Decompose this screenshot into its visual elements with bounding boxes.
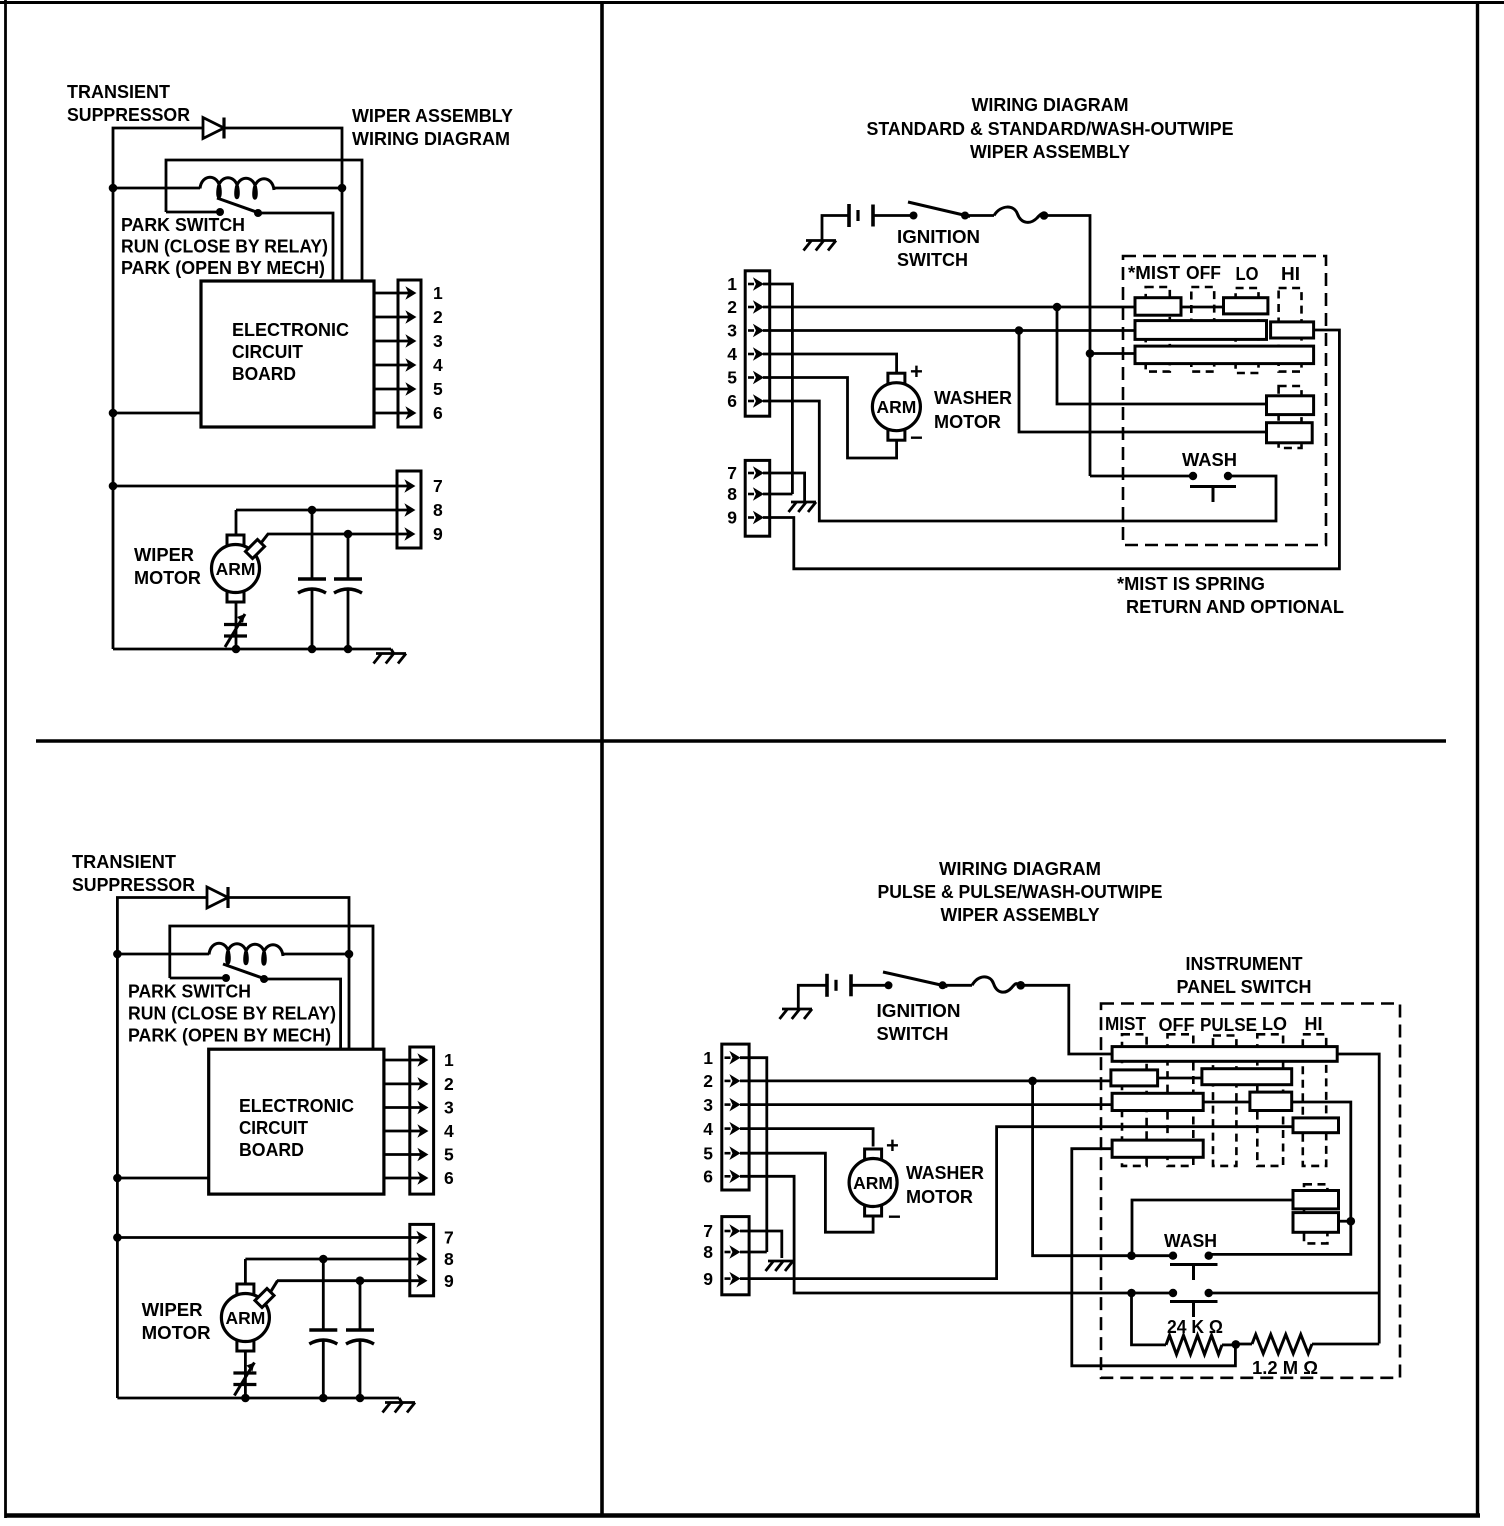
svg-text:−: − (888, 1204, 901, 1229)
pin 3 with arrow (374, 331, 443, 351)
connector J8 pins 7-9 BR (722, 1217, 749, 1295)
svg-text:RUN (CLOSE BY RELAY): RUN (CLOSE BY RELAY) (128, 1003, 336, 1024)
pin 6 with arrow (374, 403, 443, 423)
wire motor plus lead (235, 510, 238, 535)
svg-text:TRANSIENT: TRANSIENT (72, 851, 177, 872)
wire 24K to junction (1222, 1344, 1236, 1347)
diode D2 transient suppressor (207, 887, 228, 908)
wiper motor M1 armature (212, 535, 260, 602)
row2 pulse-lo bar BR (1202, 1069, 1292, 1085)
pin 1 glyph BR (703, 1048, 739, 1068)
wiper motor M3 armature (221, 1284, 269, 1351)
wire coil left lead (113, 187, 200, 190)
motor brush terminal angled BL (255, 1281, 278, 1308)
svg-text:SWITCH: SWITCH (897, 249, 968, 270)
diode D1 transient suppressor (203, 118, 224, 139)
wire battery to ground BR (798, 985, 827, 1009)
washer motor M2 (872, 373, 920, 440)
svg-text:OFF: OFF (1186, 262, 1221, 283)
row3 lo bar BR (1250, 1092, 1292, 1110)
label MIST IS SPRING footnote (1117, 573, 1344, 617)
node pin9 capacitor junction BL (356, 1276, 365, 1285)
ground chassis TL (374, 649, 407, 664)
label IGNITION SWITCH (897, 226, 980, 270)
svg-text:IGNITION: IGNITION (897, 226, 980, 247)
node wash row2 branch (1127, 1289, 1136, 1298)
wire ignition feed to row1 (1021, 985, 1112, 1054)
pin 7 with arrow (113, 476, 443, 496)
label ELECTRONIC CIRCUIT BOARD (232, 319, 349, 384)
svg-text:WASH: WASH (1164, 1230, 1217, 1251)
node C2 ground junction (344, 645, 353, 654)
wire upper stacked to wash feed (1132, 1200, 1293, 1256)
label WASHER MOTOR (934, 387, 1012, 432)
svg-text:7: 7 (727, 463, 737, 483)
wire diode to right corner (224, 128, 342, 281)
wire battery to switch BR (851, 984, 889, 987)
pin 3 glyph TR (727, 321, 763, 341)
svg-text:RUN (CLOSE BY RELAY): RUN (CLOSE BY RELAY) (121, 236, 328, 257)
svg-text:SUPPRESSOR: SUPPRESSOR (67, 104, 190, 125)
svg-text:5: 5 (433, 379, 443, 399)
variable resistor R-park BL (233, 1363, 256, 1396)
pin 6 glyph TR (727, 391, 763, 411)
connector J1 pins 1-6 (398, 280, 421, 427)
wire pin3 branch to lower contact (1019, 331, 1267, 433)
node pin8 capacitor junction BL (319, 1255, 328, 1264)
wire pin2 branch to upper contact (1057, 307, 1267, 404)
node motor ground junction BL (241, 1394, 250, 1403)
wire 1.2M to right rail (1312, 1343, 1379, 1346)
ground chassis pin7 BR (766, 1261, 794, 1271)
label MIST OFF LO HI (1128, 262, 1300, 284)
wire switch to board BL (264, 979, 341, 1050)
wire coil left lead BL (117, 953, 209, 956)
ignition switch S4 (883, 972, 948, 989)
svg-text:ELECTRONIC: ELECTRONIC (232, 319, 349, 340)
svg-text:8: 8 (433, 500, 443, 520)
lo movable dashed BR (1257, 1034, 1283, 1166)
lower stacked bar BR (1293, 1213, 1339, 1233)
wash switch TR (1189, 472, 1236, 502)
pin 5 glyph BR (703, 1143, 739, 1163)
instrument switch dashed box BR (1101, 1004, 1400, 1378)
title PULSE WIRING DIAGRAM (878, 858, 1163, 925)
node diode-coil junction (338, 184, 347, 193)
pin 2 glyph TR (727, 297, 763, 317)
wire battery to ground (822, 216, 849, 241)
wire wash row2 to 24K (1132, 1293, 1167, 1345)
connector J7 pins 1-6 BR (722, 1044, 749, 1190)
variable resistor R-park (224, 614, 247, 647)
pin 4 with arrow (374, 355, 443, 375)
wire pin7 to ground (763, 473, 805, 501)
svg-text:WASH: WASH (1182, 449, 1237, 470)
svg-text:ARM: ARM (225, 1308, 265, 1328)
row5 mist-off bar BR (1112, 1140, 1203, 1157)
row3 mist-off bar BR (1112, 1093, 1203, 1110)
svg-text:MOTOR: MOTOR (934, 411, 1001, 432)
svg-text:WIRING DIAGRAM: WIRING DIAGRAM (972, 94, 1129, 115)
capacitor C3 (309, 1259, 337, 1398)
connector J3 pins 1-6 TR (745, 271, 770, 416)
wire pin3 to switch BR (740, 1103, 1112, 1106)
svg-text:SWITCH: SWITCH (877, 1023, 949, 1044)
wire pin4 to washer motor (763, 354, 897, 372)
svg-text:5: 5 (444, 1145, 454, 1165)
label MIST OFF PULSE LO HI (1105, 1013, 1323, 1035)
pin 2 glyph BR (703, 1071, 739, 1091)
wire pin1 to pin8 BR (740, 1058, 767, 1252)
label WASHER MOTOR BR (906, 1162, 984, 1207)
node ignition row3 tap (1086, 349, 1095, 358)
svg-text:PARK (OPEN BY MECH): PARK (OPEN BY MECH) (128, 1025, 331, 1046)
wire motor bottom lead (235, 602, 238, 649)
off movable dashed BR (1168, 1034, 1194, 1166)
label WASH BR (1164, 1230, 1217, 1251)
svg-text:8: 8 (727, 484, 737, 504)
pin 2 with arrow (374, 307, 443, 327)
pin 5 glyph TR (727, 368, 763, 388)
wire ground bus (113, 648, 391, 651)
motor brush terminal angled (245, 534, 268, 559)
relay coil L2 (209, 943, 283, 964)
wire park-switch loop BL (170, 926, 373, 1050)
wire battery to switch (873, 214, 914, 217)
wire row5 to resistor junction (1072, 1149, 1236, 1366)
svg-text:PARK (OPEN BY MECH): PARK (OPEN BY MECH) (121, 257, 325, 278)
row1 full contact bar BR (1112, 1047, 1337, 1062)
svg-text:24 K Ω: 24 K Ω (1167, 1316, 1223, 1337)
node board supply junction (109, 409, 118, 418)
row3 long contact bar (1135, 346, 1314, 364)
wire switch to fuse BR (943, 984, 972, 987)
title WIPER ASSEMBLY WIRING DIAGRAM (352, 105, 514, 149)
title STANDARD WIRING DIAGRAM (867, 94, 1234, 162)
svg-text:WIRING DIAGRAM: WIRING DIAGRAM (939, 858, 1101, 879)
node motor ground junction (232, 645, 241, 654)
connector J4 pins 7-9 TR (745, 460, 770, 536)
svg-text:2: 2 (444, 1074, 454, 1094)
svg-text:ARM: ARM (876, 397, 916, 417)
wire switch to board (258, 213, 333, 281)
off movable contact dashed (1191, 287, 1214, 372)
upper stacked contact bar (1267, 396, 1314, 415)
ignition switch S2 (908, 202, 970, 220)
svg-text:6: 6 (703, 1167, 713, 1187)
svg-text:3: 3 (444, 1098, 454, 1118)
svg-text:PULSE & PULSE/WASH-OUTWIPE: PULSE & PULSE/WASH-OUTWIPE (878, 881, 1163, 902)
wash switch BR (1169, 1252, 1218, 1281)
ground chassis BL (383, 1398, 416, 1413)
relay coil L1 (200, 177, 274, 198)
svg-text:1: 1 (727, 274, 737, 294)
node board supply junction BL (113, 1174, 122, 1183)
svg-text:WIPER: WIPER (134, 544, 194, 565)
node pin2 wash branch (1028, 1077, 1037, 1086)
svg-text:3: 3 (703, 1095, 713, 1115)
node pin3 branch (1015, 326, 1024, 335)
wire pin2 to switch BR (740, 1080, 1111, 1083)
node diode-coil junction BL (345, 950, 354, 959)
wire coil right lead (274, 187, 342, 190)
electronic circuit board U1 (201, 281, 374, 427)
wire pin8 stub BR (740, 1251, 767, 1254)
wire pin9 to switch row4 BR (740, 1127, 1293, 1279)
wire board supply (113, 412, 201, 415)
svg-text:6: 6 (727, 391, 737, 411)
node pin7 bus junction (109, 482, 118, 491)
svg-text:*MIST IS SPRING: *MIST IS SPRING (1117, 573, 1265, 594)
wire pin6 to wash row2 BR (740, 1176, 1173, 1293)
battery B+ ignition (849, 204, 873, 227)
ground chassis battery TR (804, 241, 837, 251)
svg-text:PANEL SWITCH: PANEL SWITCH (1177, 976, 1312, 997)
svg-text:2: 2 (433, 307, 443, 327)
svg-text:+: + (910, 359, 923, 384)
wire ignition to wash (1090, 475, 1193, 478)
lo movable contact dashed (1236, 288, 1259, 373)
hi movable dashed BR (1303, 1034, 1326, 1166)
svg-text:2: 2 (703, 1071, 713, 1091)
lower stacked contact bar (1267, 423, 1313, 443)
wire park-switch loop (166, 160, 362, 281)
svg-text:INSTRUMENT: INSTRUMENT (1186, 953, 1304, 974)
svg-text:RETURN AND OPTIONAL: RETURN AND OPTIONAL (1126, 596, 1344, 617)
connector J2 pins 7-9 (397, 471, 421, 548)
label TRANSIENT SUPPRESSOR (67, 81, 190, 125)
wire pin8 stub (763, 493, 792, 496)
row1 lo contact bar (1224, 298, 1268, 314)
resistor 24K (1166, 1335, 1222, 1354)
pin 5 with arrow (374, 379, 443, 399)
node resistor junction BR (1232, 1340, 1241, 1349)
wire top rail with left bus BL (117, 898, 207, 1399)
wire motor bottom lead BL (244, 1351, 247, 1398)
wire motor plus lead BL (244, 1259, 247, 1284)
svg-text:4: 4 (727, 344, 737, 364)
wire pin5 to washer minus BR (740, 1153, 873, 1232)
wire row1 to right rail (1337, 1054, 1379, 1344)
washer motor M4 (849, 1149, 897, 1216)
node lower stacked junction BR (1347, 1217, 1356, 1226)
svg-text:MOTOR: MOTOR (142, 1322, 211, 1343)
label WIPER MOTOR (134, 544, 201, 588)
pin 8 with arrow BL (245, 1249, 454, 1269)
node C4 ground junction (356, 1394, 365, 1403)
park switch S1 (166, 198, 262, 217)
svg-text:WIPER ASSEMBLY: WIPER ASSEMBLY (941, 904, 1101, 925)
svg-text:3: 3 (727, 321, 737, 341)
svg-text:IGNITION: IGNITION (877, 1000, 961, 1021)
svg-text:WASHER: WASHER (906, 1162, 984, 1183)
wire pin5 to washer minus (763, 378, 897, 459)
svg-text:1.2 M Ω: 1.2 M Ω (1252, 1357, 1318, 1378)
row2 long contact bar (1135, 321, 1267, 340)
node wash feed branch (1127, 1251, 1136, 1260)
capacitor C1 (298, 510, 326, 649)
svg-text:+: + (886, 1133, 899, 1158)
mist movable contact dashed (1146, 287, 1170, 372)
capacitor C2 (334, 534, 362, 649)
battery B+ ignition BR (827, 974, 851, 997)
connector J5 pins 1-6 BL (410, 1047, 434, 1194)
wire pin6 to wash return (763, 401, 1276, 521)
pin 5 with arrow BL (384, 1145, 454, 1165)
wire row3 to wash right (1209, 1102, 1351, 1254)
svg-text:*MIST: *MIST (1128, 262, 1181, 283)
svg-text:3: 3 (433, 331, 443, 351)
fuse F2 (972, 977, 1018, 992)
pin 6 glyph BR (703, 1167, 739, 1187)
row2 link BR (1158, 1077, 1202, 1080)
pin 9 with arrow BL (277, 1271, 454, 1291)
label washer minus BR (888, 1204, 901, 1229)
hi lower movable dashed BR (1304, 1184, 1327, 1243)
mist movable dashed BR (1122, 1034, 1147, 1166)
pin 4 with arrow BL (384, 1121, 454, 1141)
wire junction to 1.2M (1236, 1343, 1252, 1346)
wire coil right lead BL (283, 953, 349, 956)
svg-text:2: 2 (727, 297, 737, 317)
pin 6 with arrow BL (384, 1168, 454, 1188)
svg-text:9: 9 (703, 1269, 713, 1289)
label washer plus BR (886, 1133, 899, 1158)
node pin8 capacitor junction (308, 506, 317, 515)
connector J6 pins 7-9 BL (410, 1224, 434, 1295)
hi lower movable contact dashed (1279, 386, 1302, 448)
pin 1 glyph TR (727, 274, 763, 294)
pin 7 glyph TR (727, 463, 763, 483)
svg-text:SUPPRESSOR: SUPPRESSOR (72, 874, 195, 895)
svg-text:WIRING DIAGRAM: WIRING DIAGRAM (352, 128, 510, 149)
row1 link wire (1181, 306, 1224, 309)
svg-text:9: 9 (727, 508, 737, 528)
svg-text:BOARD: BOARD (232, 363, 296, 384)
pin 4 glyph BR (703, 1119, 739, 1139)
svg-text:ARM: ARM (853, 1173, 893, 1193)
label washer minus (910, 425, 923, 450)
quadrant divider horizontal (36, 739, 1446, 742)
label WIPER MOTOR BL (142, 1299, 211, 1343)
pin 1 with arrow BL (384, 1050, 454, 1070)
node fuse output (1040, 211, 1049, 220)
svg-text:6: 6 (444, 1168, 454, 1188)
wire top rail with left bus (113, 128, 203, 649)
wire ignition feed down (1044, 216, 1090, 477)
pin 8 glyph TR (727, 484, 763, 504)
node pin2 branch (1053, 303, 1062, 312)
svg-text:1: 1 (444, 1050, 454, 1070)
svg-text:CIRCUIT: CIRCUIT (239, 1117, 309, 1138)
label PARK SWITCH BL (128, 981, 336, 1046)
wire pin2 to switch row1 (763, 306, 1135, 309)
node C3 ground junction (319, 1394, 328, 1403)
svg-text:1: 1 (433, 283, 443, 303)
pin 9 glyph BR (703, 1269, 739, 1289)
svg-text:7: 7 (444, 1228, 454, 1248)
wire board supply BL (117, 1177, 208, 1180)
label 24 K ohm (1167, 1316, 1223, 1337)
svg-text:PULSE: PULSE (1200, 1014, 1257, 1035)
node fuse output BR (1016, 981, 1025, 990)
pin 8 with arrow (236, 500, 443, 520)
resistor 1.2M (1252, 1335, 1312, 1354)
row2 mist bar BR (1111, 1070, 1158, 1086)
node pin9 capacitor junction (344, 530, 353, 539)
label INSTRUMENT PANEL SWITCH (1177, 953, 1312, 997)
row2 hi contact bar (1271, 322, 1314, 338)
node C1 ground junction (308, 645, 317, 654)
row1 mist contact bar (1135, 298, 1181, 316)
svg-text:MOTOR: MOTOR (134, 567, 201, 588)
wire ground bus BL (117, 1397, 399, 1400)
svg-text:MOTOR: MOTOR (906, 1186, 973, 1207)
node coil left junction (109, 184, 118, 193)
svg-text:WIPER ASSEMBLY: WIPER ASSEMBLY (352, 105, 514, 126)
wire pin2 branch to wash (1033, 1081, 1173, 1256)
pin 1 with arrow (374, 283, 443, 303)
svg-text:ARM: ARM (216, 559, 256, 579)
svg-text:MIST: MIST (1105, 1013, 1147, 1034)
svg-text:4: 4 (444, 1121, 454, 1141)
label IGNITION SWITCH BR (877, 1000, 961, 1044)
ground chassis battery BR (780, 1009, 813, 1019)
svg-text:7: 7 (433, 476, 443, 496)
upper stacked bar BR (1293, 1191, 1339, 1209)
electronic circuit board U2 (209, 1049, 384, 1194)
quadrant divider vertical (600, 2, 604, 1515)
instrument switch dashed box TR (1123, 256, 1326, 545)
pin 9 with arrow (267, 524, 443, 544)
svg-text:HI: HI (1305, 1013, 1323, 1034)
svg-text:LO: LO (1262, 1013, 1287, 1034)
label PARK SWITCH (121, 214, 328, 278)
svg-text:5: 5 (727, 368, 737, 388)
label WASH TR (1182, 449, 1237, 470)
svg-text:8: 8 (444, 1249, 454, 1269)
svg-text:STANDARD & STANDARD/WASH-OUTWI: STANDARD & STANDARD/WASH-OUTWIPE (867, 118, 1234, 139)
svg-text:9: 9 (433, 524, 443, 544)
pin 9 glyph TR (727, 508, 763, 528)
svg-text:WIPER: WIPER (142, 1299, 203, 1320)
wire wash row2 right (1209, 1292, 1380, 1295)
hi movable contact dashed (1279, 288, 1302, 372)
svg-text:LO: LO (1236, 263, 1259, 284)
svg-text:TRANSIENT: TRANSIENT (67, 81, 171, 102)
pin 8 glyph BR (703, 1242, 739, 1262)
label ELECTRONIC CIRCUIT BOARD BL (239, 1095, 354, 1160)
svg-text:8: 8 (703, 1242, 713, 1262)
pin 4 glyph TR (727, 344, 763, 364)
svg-text:CIRCUIT: CIRCUIT (232, 341, 304, 362)
svg-text:−: − (910, 425, 923, 450)
wire lower stacked to junction (1339, 1220, 1351, 1223)
fuse F1 (994, 207, 1044, 222)
wire pin9 to HI return (763, 330, 1339, 569)
label TRANSIENT SUPPRESSOR BL (72, 851, 195, 895)
row4 hi bar BR (1293, 1118, 1339, 1133)
pin 7 glyph BR (703, 1221, 739, 1241)
svg-text:HI: HI (1281, 263, 1300, 284)
row3 link BR (1203, 1101, 1250, 1104)
svg-text:WASHER: WASHER (934, 387, 1012, 408)
pin 2 with arrow BL (384, 1074, 454, 1094)
wash-outwipe switch BR (1169, 1289, 1218, 1317)
svg-text:1: 1 (703, 1048, 713, 1068)
svg-text:4: 4 (703, 1119, 713, 1139)
svg-text:7: 7 (703, 1221, 713, 1241)
